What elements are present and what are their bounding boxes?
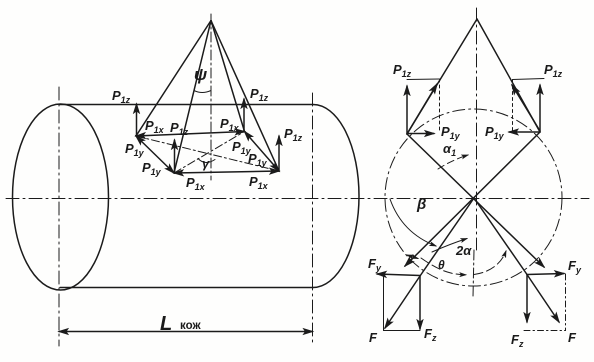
slanted force along right side [512, 85, 540, 131]
right circle dash-dot [385, 109, 562, 286]
radial line to lower-left point [420, 198, 474, 276]
quad diagonal TL-BR dash-dot [136, 136, 279, 171]
2a outer arc left [421, 258, 466, 275]
svg-text:Fy: Fy [368, 256, 382, 273]
right-end vertical centerline [312, 93, 314, 346]
rect lower-left side [383, 276, 385, 331]
quad bottom edge with arrows [174, 171, 279, 173]
cylinder top line [59, 104, 313, 106]
svg-text:θ: θ [438, 258, 445, 272]
rect upper-left top [407, 78, 440, 81]
2a inner arc [432, 239, 467, 253]
svg-text:Fz: Fz [511, 332, 524, 349]
pyramid edge apex-BR [211, 21, 279, 172]
svg-text:P1y: P1y [125, 141, 145, 158]
svg-text:β: β [416, 196, 426, 213]
svg-text:2α: 2α [455, 243, 472, 258]
vector Fz lower-right [526, 275, 528, 323]
gamma angle arc [198, 159, 215, 163]
cone side right [477, 19, 540, 132]
horizontal centerline [6, 198, 589, 200]
rect lower-right side dash-dot [565, 274, 567, 331]
rect upper-left right dotted [439, 79, 441, 133]
radial line UR-to-LL [405, 132, 540, 266]
cylinder left end ellipse [13, 104, 109, 290]
vector P1z TR [243, 99, 245, 131]
vector Fy lower-right [527, 274, 564, 275]
pyramid edge apex-BL [174, 21, 211, 174]
vector P1z TL [136, 104, 138, 135]
vector F lower-right diagonal [527, 275, 559, 323]
left vertical centerline [58, 87, 60, 346]
slanted force along left side [407, 84, 437, 134]
quad left edge with arrows [136, 136, 174, 173]
svg-text:P1y: P1y [441, 124, 461, 141]
svg-text:γ: γ [202, 156, 210, 171]
right vertical centerline [476, 8, 478, 250]
rect lower-right bottom dash-dot [524, 330, 566, 332]
cylinder bottom line [60, 287, 313, 289]
rect upper-right left dotted [512, 80, 514, 132]
vector P1y upper-right [509, 131, 540, 133]
cylinder right end cap [313, 105, 359, 288]
vector Fy lower-left [377, 274, 420, 276]
theta angle arc [407, 255, 418, 259]
svg-text:P1z: P1z [544, 62, 563, 79]
rect upper-right top [513, 79, 545, 80]
pyramid axis dash-dot [210, 14, 212, 180]
alpha1 angle arc [438, 155, 468, 169]
vector P1z BL [174, 140, 176, 172]
vector P1y upper-left [407, 133, 434, 135]
rect lower-left bottom [384, 330, 421, 332]
svg-text:P1z: P1z [284, 126, 303, 143]
vector P1z BR [278, 136, 280, 170]
psi angle arc [194, 91, 211, 93]
vector Fz lower-left [419, 276, 421, 329]
dimension line L [59, 331, 313, 333]
svg-text:α1: α1 [443, 141, 456, 158]
quad top edge with arrows [136, 132, 245, 137]
svg-text:P1x: P1x [186, 175, 206, 192]
svg-text:Fy: Fy [568, 258, 582, 275]
quad diagonal BL-TR dash-dot [174, 132, 245, 174]
svg-text:ψ: ψ [194, 65, 207, 84]
vector F lower-left diagonal [385, 276, 420, 328]
svg-text:P1z: P1z [112, 88, 131, 105]
radial line UL-to-LR [407, 134, 544, 267]
svg-text:P1x: P1x [145, 118, 165, 135]
svg-text:P1y: P1y [142, 160, 162, 177]
svg-text:P1z: P1z [393, 62, 412, 79]
svg-text:кож: кож [180, 320, 201, 332]
svg-text:P1y: P1y [485, 124, 505, 141]
pyramid edge apex-TL [136, 21, 211, 137]
2a outer arc right [474, 251, 506, 275]
beta angle arc [390, 199, 436, 246]
svg-text:P1x: P1x [220, 116, 240, 133]
cone side left [407, 19, 477, 134]
svg-text:P1z: P1z [250, 86, 269, 103]
quad right edge with arrows [245, 132, 280, 172]
radial line to lower-right point [474, 198, 527, 275]
svg-text:Fz: Fz [424, 326, 437, 343]
pyramid edge apex-TR [211, 21, 245, 132]
svg-text:F: F [568, 330, 577, 345]
svg-text:P1x: P1x [249, 174, 269, 191]
svg-text:L: L [160, 313, 172, 335]
vector P1z upper-left [406, 86, 408, 134]
svg-text:F: F [369, 330, 378, 345]
vector P1z upper-right [539, 85, 541, 131]
